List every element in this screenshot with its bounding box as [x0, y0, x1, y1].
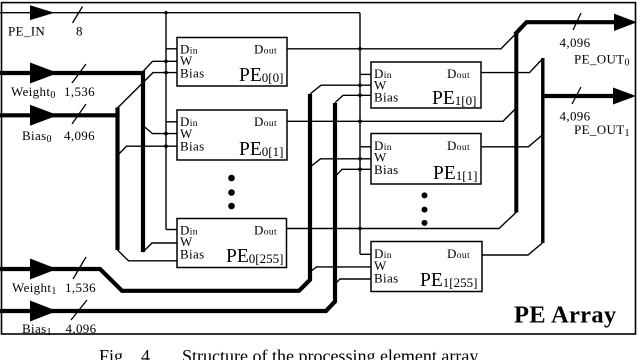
- slash PE_OUT0 bus width: [573, 13, 581, 30]
- svg-text:Bias: Bias: [374, 162, 399, 177]
- svg-text:4.: 4.: [141, 346, 155, 360]
- wire Bias feed PE1[1]: [335, 169, 371, 176]
- svg-text:1,536: 1,536: [64, 84, 95, 99]
- svg-text:Bias: Bias: [180, 247, 205, 262]
- wire Bias1 trunk: [0, 103, 335, 311]
- wire Din stub PE1[1]: [360, 146, 371, 148]
- PE block PE1[1]: [371, 134, 481, 185]
- svg-text:Bias: Bias: [180, 139, 205, 154]
- svg-text:Bias: Bias: [180, 66, 205, 81]
- svg-text:Bias: Bias: [374, 271, 399, 286]
- svg-text:1,536: 1,536: [65, 280, 96, 295]
- arrow Weight0: [30, 63, 58, 84]
- wire Weight1 trunk: [0, 94, 310, 291]
- wire Bias feed PE1[255]: [335, 279, 371, 284]
- ellipsis dots column1: [422, 192, 428, 226]
- wire Dout PE0[1] to PE_OUT0 trunk: [287, 109, 516, 122]
- svg-text:Bias0: Bias0: [22, 128, 52, 145]
- wire W feed PE1[0]: [310, 85, 371, 94]
- PE block PE0[0]: [177, 38, 287, 87]
- junction dots on PE_IN column1 vertical: [358, 47, 362, 230]
- wire Bias feed PE0[255]: [118, 250, 178, 261]
- wire Bias feed PE0[1]: [118, 146, 178, 155]
- wire Dout PE1[1] to PE_OUT1 trunk: [481, 135, 542, 147]
- arrow Weight1: [30, 259, 57, 280]
- PE block PE1[255]: [371, 242, 482, 292]
- wire Din stub PE0[255]: [166, 229, 177, 231]
- svg-text:8: 8: [76, 24, 83, 39]
- wire PE_OUT0 trunk vertical: [514, 34, 518, 213]
- svg-text:Structure of the processing el: Structure of the processing element arra…: [182, 346, 482, 360]
- wire Din stub PE1[0]: [360, 73, 371, 75]
- wire Din stub PE1[255]: [360, 253, 371, 255]
- arrow Bias0: [30, 105, 58, 126]
- wire PE_OUT0 output: [515, 22, 618, 34]
- wire PE_OUT1 trunk vertical: [541, 58, 544, 243]
- slash Weight1 bus width: [73, 257, 86, 279]
- wire Dout PE0[0] to PE_OUT0 trunk: [287, 34, 516, 49]
- wire Weight0 trunk: [0, 73, 143, 252]
- wire W feed PE0[255]: [143, 243, 177, 252]
- wire Din stub PE0[1]: [166, 121, 177, 123]
- slash PE_OUT1 bus width: [572, 87, 581, 104]
- svg-text:Bias1: Bias1: [22, 321, 52, 338]
- svg-text:PE_OUT1: PE_OUT1: [574, 122, 630, 139]
- ellipsis dots column0: [228, 175, 235, 210]
- wire Dout PE1[255] to PE_OUT1 trunk: [482, 243, 542, 255]
- wire PE_IN horizontal: [0, 12, 360, 14]
- PE block PE1[0]: [371, 62, 481, 109]
- wire Dout PE1[0] to PE_OUT1 trunk: [481, 59, 542, 73]
- PE block PE0[1]: [177, 110, 287, 160]
- svg-text:Weight1: Weight1: [12, 280, 57, 297]
- svg-text:Weight0: Weight0: [11, 84, 56, 101]
- slash PE_IN bus width: [73, 7, 83, 24]
- wire W feed PE0[0]: [144, 61, 178, 71]
- wire PE_IN vertical column1: [359, 13, 361, 255]
- slash Weight0 bus width: [72, 64, 86, 83]
- svg-text:Fig.: Fig.: [99, 346, 128, 360]
- svg-text:PE_IN: PE_IN: [8, 24, 45, 39]
- slash Bias0 bus width: [72, 104, 86, 124]
- junction dots on PE_IN column0 vertical: [164, 11, 168, 148]
- wire W feed PE0[1]: [144, 126, 178, 134]
- svg-text:PE Array: PE Array: [514, 302, 617, 329]
- arrow PE_OUT0: [614, 14, 637, 31]
- wire W feed PE1[1]: [310, 159, 371, 167]
- wire PE_OUT1 output: [543, 94, 616, 98]
- svg-text:4,096: 4,096: [64, 128, 95, 143]
- wire PE_IN vertical column0: [165, 13, 167, 230]
- wire Bias0 trunk: [0, 108, 118, 251]
- PE block PE0[255]: [177, 219, 287, 268]
- wire Dout PE0[255] to PE_OUT0 trunk: [287, 213, 517, 229]
- svg-text:PE_OUT0: PE_OUT0: [574, 52, 630, 69]
- arrow PE_IN: [30, 5, 55, 20]
- wire Bias feed PE1[0]: [335, 95, 371, 103]
- arrow PE_OUT1: [613, 88, 636, 105]
- slash Bias1 bus width: [71, 300, 87, 320]
- svg-text:4,096: 4,096: [66, 321, 97, 336]
- wire Bias feed PE0[0]: [118, 73, 178, 108]
- svg-text:4,096: 4,096: [560, 35, 591, 50]
- wire Din stub PE0[0]: [166, 48, 177, 50]
- wire W feed PE1[255]: [311, 267, 372, 272]
- arrow Bias1: [30, 301, 57, 322]
- svg-text:Bias: Bias: [374, 90, 399, 105]
